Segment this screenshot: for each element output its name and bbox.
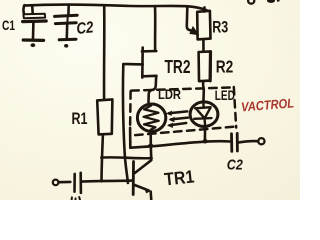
- wire rail to TR2 drain: [154, 7, 157, 51]
- wire rail to R1: [103, 5, 106, 99]
- capacitor C2 top plate: [55, 15, 78, 16]
- resistor R2: [199, 51, 211, 81]
- trimmer arrow on R3: [187, 8, 193, 31]
- resistor R1: [97, 99, 112, 134]
- svg-text:LED: LED: [215, 87, 235, 103]
- node collector junction: [148, 144, 153, 149]
- vactrol dashed box: [130, 87, 236, 135]
- light arrows: [169, 111, 187, 113]
- LDR: [137, 104, 165, 131]
- ground under C1: [23, 38, 43, 42]
- svg-text:C2: C2: [76, 19, 95, 38]
- capacitor C2 bottom plate: [55, 21, 76, 25]
- wire C2 to output terminal: [238, 141, 258, 143]
- wire C2 to ground: [66, 24, 69, 38]
- capacitor C1 bottom plate: [23, 19, 47, 23]
- wire R1 to base node: [102, 135, 103, 182]
- capacitor C1 top plate: [23, 14, 45, 18]
- wire TR1 emitter down: [149, 192, 152, 201]
- wire output node: [130, 141, 230, 148]
- resistor R3: [197, 11, 210, 40]
- output terminal: [258, 138, 264, 144]
- node LED junction: [203, 139, 208, 144]
- wire R3 to R2: [202, 40, 205, 52]
- svg-text:R3: R3: [212, 18, 228, 37]
- cut-off text bottom: [72, 197, 81, 201]
- transistor TR1: [132, 162, 135, 195]
- svg-text:R2: R2: [216, 56, 234, 76]
- paper background: [0, 0, 300, 200]
- wire R2 to LED: [202, 81, 205, 102]
- wire LED to node: [204, 126, 207, 140]
- wire C1 to ground: [32, 22, 35, 38]
- wire top supply rail: [23, 4, 206, 13]
- svg-text:R1: R1: [72, 110, 88, 128]
- capacitor C1 stub from rail: [31, 5, 34, 13]
- wire input cap to TR1 base: [81, 181, 133, 182]
- transistor TR2: [142, 48, 157, 103]
- capacitor input plates: [73, 174, 76, 192]
- capacitor C2 output plates: [230, 134, 233, 152]
- wire feedback A: [101, 156, 151, 160]
- wire input to cap: [59, 181, 71, 184]
- input terminal: [53, 180, 59, 186]
- svg-text:C1: C1: [2, 17, 15, 33]
- wire LDR to node: [149, 130, 152, 145]
- wire TR2 gate: [123, 64, 143, 183]
- wire box corner to output node: [129, 128, 132, 148]
- ground under C2: [59, 38, 76, 42]
- cut-off text top right: [248, 0, 254, 4]
- wire rail to R3: [203, 7, 206, 11]
- svg-text:LDR: LDR: [158, 86, 181, 102]
- svg-text:C2: C2: [227, 157, 244, 174]
- svg-text:TR1: TR1: [163, 166, 195, 189]
- LED: [190, 102, 218, 127]
- svg-text:TR2: TR2: [165, 57, 191, 77]
- capacitor C2 stub from rail: [67, 5, 70, 15]
